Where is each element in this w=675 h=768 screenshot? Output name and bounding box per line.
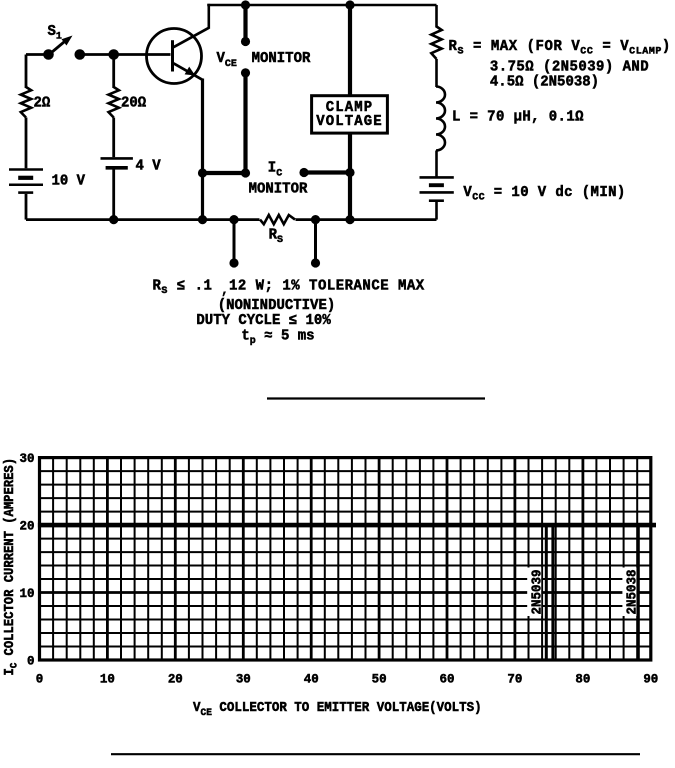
wire top rail: [207, 4, 436, 7]
svg-text:DUTY CYCLE ≤ 10%: DUTY CYCLE ≤ 10%: [196, 313, 331, 329]
svg-text:80: 80: [575, 671, 590, 686]
switch S1 arm with arrowhead: [49, 40, 68, 56]
svg-text:10: 10: [20, 586, 35, 601]
node switch throw: [75, 49, 86, 60]
svg-text:60: 60: [440, 671, 455, 686]
transistor Q1 circle: [147, 29, 202, 84]
resistor 20 ohm: [109, 87, 119, 118]
resistor RS (current limit, right): [431, 27, 441, 60]
svg-text:20: 20: [168, 671, 183, 686]
wire bottom rail left of RS: [26, 218, 260, 221]
wire bottom rail right of RS: [296, 218, 437, 221]
svg-text:40: 40: [304, 671, 319, 686]
wire RS to inductor: [435, 59, 438, 87]
separator line (figure divider): [267, 397, 485, 399]
svg-text:0: 0: [27, 653, 34, 668]
wire left branch vertical top: [25, 55, 28, 89]
svg-text:4.5Ω (2N5038): 4.5Ω (2N5038): [490, 74, 599, 90]
IC monitor rail right segment: [304, 170, 350, 174]
svg-text:RS = MAX (FOR VCC = VCLAMP): RS = MAX (FOR VCC = VCLAMP): [449, 39, 671, 58]
node top rail / clamp branch: [345, 0, 354, 9]
svg-text:4 V: 4 V: [136, 158, 162, 174]
white backing for 2N5038 label: [622, 568, 636, 617]
svg-text:MONITOR: MONITOR: [252, 51, 311, 67]
node RS left probe: [229, 215, 238, 224]
node clamp branch / bottom rail: [345, 215, 354, 224]
battery VCC (4 plates): [420, 176, 454, 179]
svg-text:MONITOR: MONITOR: [249, 181, 308, 197]
svg-text:2Ω: 2Ω: [34, 95, 51, 111]
clamp voltage branch upper: [348, 5, 352, 96]
node emitter / IC monitor rail: [198, 168, 207, 177]
RS left probe stub: [233, 220, 236, 262]
VCE monitor upper stub: [243, 5, 247, 42]
wire 20-ohm branch vertical: [112, 55, 115, 89]
svg-text:IC COLLECTOR CURRENT (AMPERES): IC COLLECTOR CURRENT (AMPERES): [1, 458, 19, 676]
node 4V branch / bottom rail: [109, 215, 118, 224]
svg-text:VCE COLLECTOR TO EMITTER VOLTA: VCE COLLECTOR TO EMITTER VOLTAGE(VOLTS): [193, 699, 482, 718]
node VCE monitor upper terminal: [241, 37, 250, 46]
resistor RS (series, bottom): [260, 215, 295, 224]
svg-text:30: 30: [236, 671, 251, 686]
inductor L (4 arcs): [436, 87, 445, 151]
node top rail / VCE monitor: [241, 0, 250, 9]
svg-text:(NONINDUCTIVE): (NONINDUCTIVE): [218, 298, 336, 314]
IC limit line at 20 A: [38, 523, 656, 528]
clamp voltage branch lower: [348, 133, 352, 220]
svg-text:30: 30: [20, 451, 35, 466]
white backing for 2N5039 label: [527, 568, 541, 617]
wire right branch top corner: [435, 5, 438, 28]
svg-text:20Ω: 20Ω: [121, 95, 147, 111]
VCE monitor lower stub: [243, 73, 247, 173]
resistor 2 ohm: [21, 87, 31, 118]
svg-text:L = 70 µH, 0.1Ω: L = 70 µH, 0.1Ω: [452, 109, 584, 125]
svg-text:VCE: VCE: [217, 51, 237, 71]
battery 10V (4 plates): [9, 168, 43, 171]
wire 20-ohm to battery 4V: [112, 118, 115, 158]
IC monitor rail left segment: [203, 171, 246, 175]
svg-text:10: 10: [100, 671, 115, 686]
wire 2-ohm to battery 10V: [25, 118, 28, 169]
graph minor and major gridlines: [52, 458, 54, 660]
RS right probe stub: [314, 220, 317, 262]
svg-text:IC: IC: [268, 160, 282, 180]
node IC monitor right terminal: [299, 168, 308, 177]
svg-text:10 V: 10 V: [52, 173, 86, 189]
battery 4V (single cell): [101, 157, 133, 160]
bottom separator line: [111, 753, 640, 755]
svg-text:VCC = 10 V dc (MIN): VCC = 10 V dc (MIN): [463, 185, 625, 204]
node RS right probe terminal: [311, 258, 320, 267]
wire inductor to battery VCC: [435, 151, 438, 178]
2N5039 voltage limit lines: [545, 525, 548, 660]
wire emitter vertical: [201, 79, 204, 220]
svg-text:20: 20: [20, 518, 35, 533]
node IC monitor left terminal: [241, 168, 250, 177]
clamp voltage box: [312, 96, 388, 133]
2N5038 voltage limit line: [637, 525, 640, 660]
svg-text:2N5038: 2N5038: [624, 569, 640, 614]
node VCE monitor lower terminal: [241, 68, 250, 77]
node RS right probe: [311, 215, 320, 224]
wire collector to top rail: [208, 4, 211, 29]
wire rail from switch throw to transistor base: [81, 53, 171, 56]
transistor Q1 emitter lead with arrow: [174, 63, 203, 80]
svg-text:2N5039: 2N5039: [529, 569, 545, 614]
node emitter / bottom rail: [198, 215, 207, 224]
svg-text:VOLTAGE: VOLTAGE: [316, 114, 382, 130]
wire battery 10V to bottom rail corner: [25, 194, 28, 220]
svg-text:RS ≤ .1 ,12 W; 1% TOLERANCE MA: RS ≤ .1 ,12 W; 1% TOLERANCE MAX: [153, 278, 425, 298]
node clamp branch / IC rail junction: [345, 168, 354, 177]
node switch pole: [43, 49, 54, 60]
node 20-ohm branch top: [108, 49, 119, 60]
transistor Q1 base bar: [171, 40, 174, 71]
node RS left probe terminal: [229, 258, 238, 267]
graph border: [40, 458, 651, 660]
svg-text:RS: RS: [269, 227, 283, 246]
transistor Q1 collector lead: [174, 28, 209, 47]
wire battery 4V to bottom rail: [112, 168, 115, 220]
svg-text:90: 90: [643, 671, 658, 686]
svg-text:50: 50: [372, 671, 387, 686]
svg-text:S1: S1: [48, 24, 62, 43]
wire top-left rail from 2-ohm branch to switch pole: [26, 53, 49, 56]
svg-text:70: 70: [507, 671, 522, 686]
wire battery VCC to bottom rail corner: [435, 202, 438, 220]
svg-text:3.75Ω (2N5039) AND: 3.75Ω (2N5039) AND: [490, 59, 649, 75]
svg-text:0: 0: [36, 671, 43, 686]
svg-text:tp ≈ 5 ms: tp ≈ 5 ms: [241, 328, 314, 347]
